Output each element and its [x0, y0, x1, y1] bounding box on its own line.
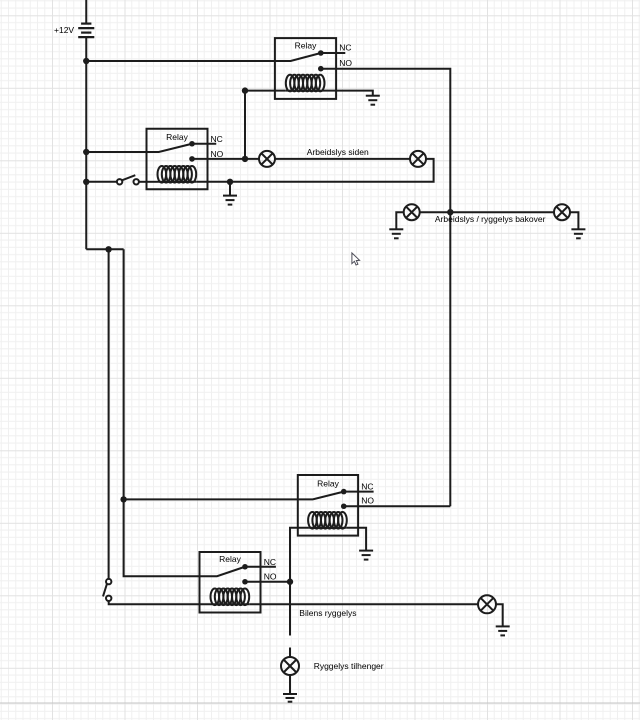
wire: to relay U2 common	[86, 151, 146, 153]
svg-text:Arbeidslys siden: Arbeidslys siden	[307, 147, 369, 157]
node: U1 coil left junction	[242, 87, 248, 93]
ground G7	[496, 626, 510, 635]
wire: S2 to U4 coil	[109, 601, 211, 604]
wire: U3 coil right to ground	[347, 528, 366, 551]
ground G1	[366, 96, 380, 105]
svg-text:Relay: Relay	[317, 478, 339, 488]
relay U4	[200, 552, 276, 613]
lamp L2 Arbeidslys siden right	[410, 151, 426, 167]
wire: node down to lamp L6 (with gap)	[289, 582, 291, 636]
svg-text:+12V: +12V	[54, 25, 74, 35]
relay U3	[298, 475, 374, 536]
wire: to relay U3 common	[124, 498, 298, 500]
node: junction to U2 common	[83, 149, 89, 155]
lamp L5 Bilens ryggelys	[478, 595, 496, 613]
svg-text:Relay: Relay	[166, 132, 188, 142]
node: junction battery to U1	[83, 58, 89, 64]
wire: to relay U1 common	[86, 60, 275, 62]
node: branch junction	[105, 246, 111, 252]
wire: L4 to ground	[570, 212, 578, 229]
svg-text:NC: NC	[339, 43, 351, 53]
node: junction to relay U3 common	[120, 496, 126, 502]
wire: U4 coil right to lamp L5	[249, 603, 478, 605]
wire: L6 to ground	[289, 675, 291, 694]
wire: L5 to ground	[496, 604, 503, 626]
svg-text:Ryggelys tilhenger: Ryggelys tilhenger	[314, 661, 384, 671]
relay U1	[275, 38, 345, 99]
svg-text:NC: NC	[361, 481, 373, 491]
svg-text:Arbeidslys / ryggelys bakover: Arbeidslys / ryggelys bakover	[435, 214, 546, 224]
svg-text:NC: NC	[211, 134, 223, 144]
svg-text:NC: NC	[264, 557, 276, 567]
wire: U2 NO to lamp L1	[192, 158, 259, 160]
lamp L4 bakover right	[554, 204, 570, 220]
lamp L1 Arbeidslys siden left	[259, 151, 275, 167]
ground G2	[223, 196, 237, 205]
wire: L3 to L4	[420, 211, 554, 213]
wire: bus corner to branch	[86, 248, 123, 250]
wire: L1 to L2	[275, 158, 410, 160]
ground G6	[359, 551, 373, 560]
wire: U4 NO to node	[245, 581, 290, 583]
node: junction to switch S1	[83, 179, 89, 185]
switch S2	[103, 579, 111, 601]
wire: battery down left bus	[85, 37, 87, 249]
ground G8	[283, 694, 297, 702]
wire: U1 coil right to ground	[325, 91, 373, 96]
svg-text:NO: NO	[361, 496, 374, 506]
wire: S1 to U2 coil	[139, 181, 147, 183]
node: coil/ground junction	[227, 179, 233, 185]
wire: U1 NO to right bus	[321, 69, 451, 507]
wire: U2 coil through box	[147, 181, 158, 183]
node: junction U4 NO / vertical to lamp	[287, 579, 293, 585]
lamp L3 bakover left	[404, 204, 420, 220]
svg-text:Relay: Relay	[219, 554, 241, 564]
svg-text:NO: NO	[339, 58, 352, 68]
wire: vertical branch to lower switch	[108, 249, 110, 579]
node: junction NO line / vertical from U1 coil	[242, 156, 248, 162]
wire: to switch S1	[86, 181, 117, 183]
lamp L6 Ryggelys tilhenger	[281, 657, 299, 675]
wire: U3 NO to right bus end	[344, 505, 451, 507]
wire: node down to U2 NO line	[244, 91, 246, 159]
svg-text:Relay: Relay	[295, 41, 317, 51]
svg-text:NO: NO	[211, 149, 224, 159]
svg-text:Bilens ryggelys: Bilens ryggelys	[299, 608, 356, 618]
node: junction right bus / bakover lamps	[447, 209, 453, 215]
wire: ground stub	[229, 182, 231, 196]
battery B1 +12V	[78, 0, 94, 37]
ground G5	[571, 229, 585, 238]
wire: vertical branch to lower relays	[124, 249, 200, 576]
wire: U3 coil left down to U4 NO node	[290, 528, 308, 582]
wire: L3 to ground	[396, 212, 403, 229]
switch S1	[117, 175, 139, 184]
svg-text:NO: NO	[264, 571, 277, 581]
wire: U1 coil left to node	[245, 90, 286, 92]
relay U2	[147, 129, 217, 190]
ground G4	[389, 229, 403, 238]
page boundary	[0, 702, 640, 704]
wire: L2 return loop to ground node	[230, 159, 434, 182]
mouse cursor	[352, 253, 360, 265]
